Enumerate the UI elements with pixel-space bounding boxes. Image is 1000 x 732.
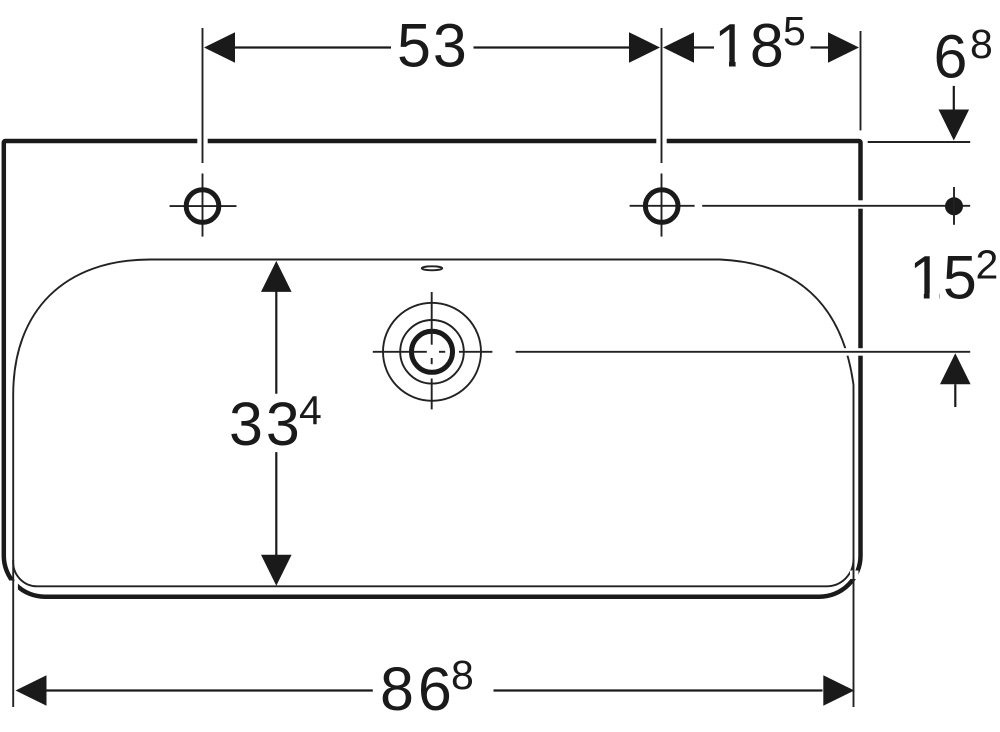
dimension line 86^8 segment left [46, 689, 373, 691]
svg-text:53: 53 [397, 11, 469, 79]
svg-text:15: 15 [909, 244, 977, 312]
drain crosshair vertical long top [431, 292, 433, 345]
mask foot of digit 1 (Helvetica-style stem) [912, 293, 924, 300]
arrow right of 18^5 [828, 32, 859, 63]
33^4 dimension line lower segment [275, 452, 277, 555]
overflow slot ellipse [422, 266, 442, 270]
svg-text:8: 8 [970, 21, 993, 67]
width extension line left (86^8) [12, 560, 14, 707]
arrow down 33^4 [261, 555, 292, 586]
basin inner rim (thin rounded outline) [13, 260, 853, 587]
mask foot of digit 1 (Helvetica-style stem) [717, 61, 729, 68]
left tap hole centre line vertical [202, 174, 204, 237]
drain crosshair horizontal short dash [439, 351, 445, 353]
right tap hole centre line horizontal segment 1 [630, 205, 695, 207]
right tap hole circle [645, 190, 678, 223]
dimension line 53 segment left [235, 46, 392, 48]
arrow right of 86^8 [823, 675, 854, 706]
drain crosshair horizontal long left [373, 351, 427, 353]
arrow up 15^2 [940, 353, 971, 384]
dimension line 18^5 segment right [811, 46, 829, 48]
svg-text:2: 2 [976, 242, 999, 288]
leader tail of 15^2 arrow [954, 384, 956, 407]
drain outer circle [383, 303, 481, 401]
svg-text:5: 5 [783, 8, 806, 54]
gap in top edge at left tap extension line [197, 136, 207, 147]
drain waste circle (thick) [412, 331, 453, 372]
svg-text:86: 86 [380, 655, 456, 723]
left tap hole centre line horizontal [170, 205, 237, 207]
leader tail of 6^8 arrow [953, 86, 955, 110]
svg-text:6: 6 [934, 23, 968, 91]
arrow right of 53 [629, 32, 660, 63]
dimension line 53 segment right [474, 46, 631, 48]
drain crosshair horizontal long right [459, 351, 492, 353]
right tap hole centre line horizontal segment 2 (to 6^8 dot) [702, 205, 970, 207]
arrow left of 53 [204, 32, 235, 63]
extension line left tap (53 dimension) [202, 28, 204, 163]
extension line right end of 18^5 [860, 31, 862, 130]
svg-text:33: 33 [229, 390, 303, 458]
dot vertical crosshair [953, 187, 955, 225]
drain middle circle [400, 320, 464, 384]
33^4 dimension line upper segment [275, 292, 277, 394]
gap in right edge and basin rim at drain centre line [836, 348, 868, 356]
drain centre line to right (15^2) [516, 351, 971, 353]
drain crosshair vertical short dash [431, 358, 433, 364]
svg-text:18: 18 [714, 11, 786, 79]
left tap hole circle [186, 190, 219, 223]
gap in right edge at tap hole centre line [854, 200, 867, 208]
arrow up 33^4 [261, 261, 292, 292]
extension of top edge for 6^8 [868, 141, 971, 143]
gap in top edge at right tap extension line [656, 136, 666, 147]
svg-text:4: 4 [299, 387, 322, 433]
extension line right tap (53 / 18^5) [661, 28, 663, 163]
gap in bottom-left corner arc at width extension line [10, 581, 18, 593]
dimension line 18^5 segment left [694, 46, 715, 48]
washbasin outer outline (thick) [4, 141, 861, 597]
right tap hole centre line vertical [661, 174, 663, 237]
gap in bottom-right corner arc at width extension line [850, 571, 858, 580]
6^8 dimension dot [945, 197, 963, 215]
dimension line 86^8 segment right [494, 689, 823, 691]
drain crosshair vertical long bottom [431, 379, 433, 410]
arrow left of 86^8 [16, 675, 47, 706]
arrow down 6^8 [939, 110, 970, 141]
width extension line right (86^8) [853, 558, 855, 707]
svg-text:8: 8 [451, 652, 474, 698]
arrow left of 18^5 [663, 32, 694, 63]
